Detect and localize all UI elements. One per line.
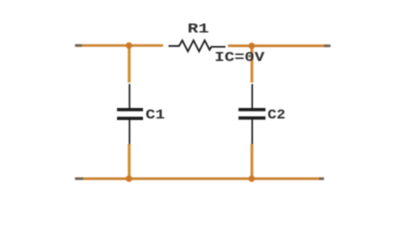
wire top rail right open-end tip	[324, 44, 331, 47]
svg-text:C1: C1	[146, 107, 166, 123]
wire C1 vertical lower (orange)	[128, 144, 131, 179]
svg-text:IC=0V: IC=0V	[215, 50, 266, 66]
node junction bottom C2	[249, 176, 255, 182]
capacitor C1	[117, 84, 143, 144]
wire bottom rail right open-end tip	[319, 177, 324, 180]
wire C1 vertical upper (orange)	[128, 46, 131, 83]
wire C2 vertical lower (orange)	[250, 144, 253, 179]
node junction top C1	[126, 42, 132, 48]
wire bottom rail	[75, 177, 324, 180]
node junction top C2	[249, 43, 255, 49]
svg-text:R1: R1	[188, 22, 210, 38]
wire C2 vertical upper (orange)	[250, 46, 253, 83]
wire top rail right segment	[228, 44, 330, 47]
capacitor C2	[239, 84, 266, 144]
wire top rail left segment	[75, 44, 163, 47]
resistor R1	[169, 40, 226, 51]
node junction bottom C1	[126, 176, 132, 182]
wire top rail left open-end tip	[75, 44, 82, 47]
svg-text:C2: C2	[268, 107, 286, 123]
wire bottom rail left open-end tip	[75, 177, 83, 180]
